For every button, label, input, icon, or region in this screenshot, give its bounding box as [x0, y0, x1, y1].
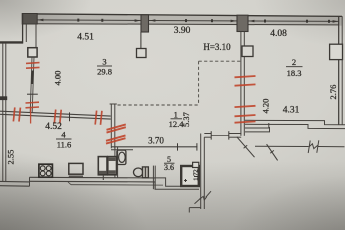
wall top band shading — [22, 13, 342, 25]
red mark pair on kitchen wall mid — [54, 110, 61, 124]
node tick bath line right — [196, 143, 198, 150]
wall corridor vertical right of bath — [200, 134, 202, 210]
red mark pair on left window lower — [26, 102, 40, 123]
wall lobby step lower — [245, 127, 270, 132]
dimension arrows segment 4.08 — [249, 20, 338, 23]
wire top wall window inner line — [36, 24, 339, 25]
svg-text:4.51: 4.51 — [77, 33, 94, 43]
wire step-out wall to left edge — [0, 41, 23, 43]
hall dashed boundary top — [199, 60, 241, 62]
node shaft inner marks — [184, 177, 198, 183]
node shaft room square — [181, 166, 199, 186]
node dark blob on far-left wall — [0, 96, 7, 100]
node cap on wall B top — [110, 103, 117, 105]
wire top wall window mid line — [36, 20, 339, 22]
wall room 2 bottom lower line — [245, 124, 345, 128]
dimension arrows segment 3.90 — [150, 19, 236, 22]
wall partition toilet-shaft — [152, 166, 154, 190]
node pier right wall — [330, 44, 343, 59]
fixture kitchen sink — [69, 163, 83, 176]
wall bottom step near shaft lower — [155, 182, 199, 189]
svg-text:11.6: 11.6 — [57, 140, 72, 150]
svg-text:3.70: 3.70 — [148, 136, 164, 146]
svg-text:4: 4 — [61, 130, 66, 140]
label room 4 underline — [56, 138, 72, 140]
wire stem above left pier — [35, 24, 37, 48]
wall kitchen top — [0, 111, 111, 116]
svg-text:2.55: 2.55 — [6, 150, 16, 165]
wall bath top line — [111, 146, 197, 148]
fixture toilet — [134, 167, 149, 178]
svg-text:3.6: 3.6 — [164, 163, 174, 172]
red mark hatch wall B upper — [107, 124, 126, 132]
svg-text:3.90: 3.90 — [174, 26, 191, 36]
hall dashed boundary bottom — [118, 104, 199, 106]
node tick corridor door right — [228, 131, 230, 139]
node corner block top-left — [22, 14, 37, 25]
wall right outer — [338, 16, 340, 124]
wire balcony thin line below bottom wall — [68, 182, 71, 185]
fixture bath sink — [117, 150, 126, 164]
fixture appliance washer right — [108, 157, 117, 175]
node break symbol on corridor wall — [195, 191, 212, 204]
node pier A top wall — [141, 15, 149, 32]
node pier column left wall — [28, 48, 37, 57]
node small pier on divider wall — [242, 46, 253, 57]
red mark pair on left window upper — [26, 63, 40, 69]
wire door threshold corridor — [211, 134, 229, 136]
node small square below pier A — [137, 49, 147, 58]
red mark pair on kitchen wall right — [95, 111, 102, 125]
wall corridor top segment right — [229, 133, 241, 135]
fixture appliance washer left — [98, 157, 107, 175]
node break symbol on loggia line — [308, 140, 319, 153]
wall bottom kitchen-bath — [30, 176, 156, 179]
svg-text:18.3: 18.3 — [287, 68, 302, 78]
svg-text:3: 3 — [102, 57, 106, 67]
red mark hatch wall B lower — [106, 135, 126, 143]
node tick on left window dim — [27, 93, 38, 95]
door leaf swing 1 — [237, 137, 255, 157]
label room 5 underline — [164, 162, 175, 164]
svg-text:Н=3.10: Н=3.10 — [203, 42, 231, 52]
svg-text:1.72: 1.72 — [193, 169, 200, 180]
window left wall of room 3 — [30, 57, 32, 113]
wall room 2 bottom upper line — [245, 120, 345, 125]
wire stem below pier A — [140, 32, 142, 49]
wall bottom step near shaft upper — [155, 178, 199, 186]
node tick on door leaf 2 — [270, 150, 274, 153]
label room 1 underline — [171, 118, 183, 120]
wall bottom far-left — [0, 180, 30, 183]
node tick bath line mid — [177, 143, 179, 150]
dimension arrows segment 4.51 — [38, 19, 140, 22]
wire left wall of room 3 upper — [22, 14, 24, 44]
svg-text:4.20: 4.20 — [261, 99, 271, 114]
node shaft meter box — [193, 162, 199, 167]
svg-text:2.76: 2.76 — [328, 85, 338, 100]
wall corridor top segment left — [204, 133, 211, 135]
hall dashed boundary vertical — [198, 61, 200, 105]
svg-text:4.00: 4.00 — [53, 71, 63, 86]
svg-text:29.8: 29.8 — [97, 67, 112, 77]
node tick kitchen dim — [69, 112, 71, 121]
wall lobby step upper — [245, 123, 269, 128]
svg-text:2: 2 — [292, 57, 296, 67]
svg-text:4.52: 4.52 — [45, 122, 62, 132]
svg-text:4.08: 4.08 — [270, 29, 287, 39]
wire loggia edge line right part — [318, 146, 345, 148]
svg-text:5.37: 5.37 — [181, 112, 191, 127]
wire pipe stub below appliances — [102, 175, 104, 180]
red mark pair on kitchen wall left — [13, 107, 20, 121]
label room 2 underline — [286, 66, 303, 68]
svg-text:1: 1 — [174, 110, 178, 120]
wire corridor lower stub vertical — [188, 208, 190, 213]
wall room1-room2 divider — [240, 32, 242, 136]
red marks on divider wall room 2 — [235, 76, 256, 123]
node step in bottom wall — [29, 177, 31, 186]
wall bath left upper (wall B) — [110, 104, 112, 148]
wire corridor lower stub horizontal — [189, 207, 200, 209]
fixture stove — [39, 164, 53, 177]
node tick on door leaf 1 — [244, 145, 248, 148]
label room 3 underline — [97, 65, 112, 67]
window left wall dark segment — [31, 71, 34, 85]
door leaf swing 2 — [267, 144, 278, 160]
wire loggia edge line left part — [255, 145, 309, 147]
node tick corridor door left — [210, 131, 212, 139]
node pier B top wall — [237, 15, 248, 31]
wall bath left lower — [114, 147, 116, 178]
svg-text:4.31: 4.31 — [283, 106, 300, 116]
wire top outer wall line — [22, 14, 342, 17]
wire far-left wall — [2, 43, 4, 181]
